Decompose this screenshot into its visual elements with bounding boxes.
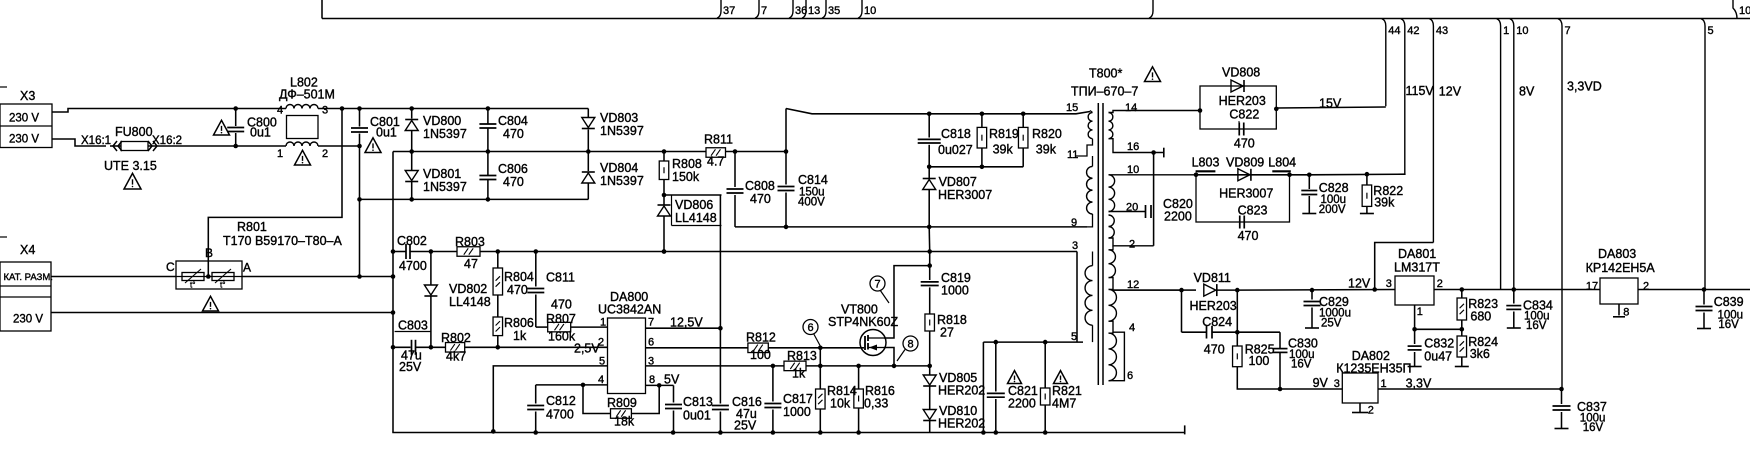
svg-text:7: 7 [874,279,880,291]
svg-text:6: 6 [1127,370,1133,382]
svg-text:ДФ–501М: ДФ–501М [279,88,335,102]
svg-text:HER203: HER203 [1219,94,1266,108]
svg-text:3,3V: 3,3V [1406,376,1432,390]
svg-text:4: 4 [277,105,283,117]
svg-text:4700: 4700 [546,408,574,422]
svg-text:T170 B59170–T80–A: T170 B59170–T80–A [223,234,343,248]
svg-text:HER3007: HER3007 [1219,187,1273,201]
svg-text:2: 2 [322,148,328,160]
svg-text:R811: R811 [704,133,733,147]
svg-text:ТПИ–670–7: ТПИ–670–7 [1071,85,1138,99]
svg-text:FU800: FU800 [115,125,153,139]
svg-text:UC3842AN: UC3842AN [598,303,661,317]
svg-text:44: 44 [1388,25,1400,37]
svg-text:C832: C832 [1424,337,1454,351]
svg-text:2: 2 [598,337,604,349]
svg-text:470: 470 [750,192,771,206]
svg-text:1N5397: 1N5397 [423,127,467,141]
svg-text:HER202: HER202 [938,417,985,431]
svg-text:8: 8 [907,339,913,351]
svg-text:3,3VD: 3,3VD [1567,79,1602,93]
svg-text:R809: R809 [607,396,637,410]
svg-text:11: 11 [1067,149,1078,161]
svg-text:1N5397: 1N5397 [600,124,644,138]
svg-text:HER3007: HER3007 [938,188,992,202]
svg-text:0u1: 0u1 [376,126,397,140]
svg-text:C806: C806 [498,162,528,176]
svg-text:L803: L803 [1192,156,1220,170]
svg-text:27: 27 [940,326,954,340]
svg-text:230 V: 230 V [13,314,43,326]
svg-text:7: 7 [761,5,767,17]
svg-text:STP4NK60Z: STP4NK60Z [828,315,899,329]
svg-text:t°: t° [220,281,225,290]
svg-text:R820: R820 [1032,127,1062,141]
svg-text:R813: R813 [787,349,817,363]
svg-text:8: 8 [1623,306,1629,318]
svg-text:C: C [166,260,175,274]
svg-text:5V: 5V [664,373,680,387]
svg-text:470: 470 [1204,342,1225,356]
svg-text:C802: C802 [397,234,427,248]
svg-text:16: 16 [1127,141,1139,153]
svg-text:C804: C804 [498,114,528,128]
svg-text:5: 5 [599,356,605,368]
svg-text:4: 4 [1129,322,1135,334]
svg-text:C808: C808 [745,179,775,193]
svg-text:6: 6 [648,337,654,349]
svg-text:8V: 8V [1519,85,1535,99]
svg-text:37: 37 [723,5,735,17]
svg-text:15V: 15V [1319,97,1342,111]
svg-text:10k: 10k [830,397,851,411]
svg-text:DA801: DA801 [1398,247,1436,261]
svg-text:2,5V: 2,5V [574,342,600,356]
svg-text:8: 8 [649,374,655,386]
svg-text:39k: 39k [1374,195,1395,209]
svg-text:C818: C818 [941,127,971,141]
svg-text:100: 100 [1249,354,1270,368]
svg-text:5: 5 [1071,331,1077,343]
svg-text:VD803: VD803 [600,111,638,125]
svg-text:25V: 25V [399,360,422,374]
svg-text:LL4148: LL4148 [449,295,491,309]
svg-text:7: 7 [1565,25,1571,37]
svg-text:16V: 16V [1718,319,1739,331]
svg-text:115V: 115V [1406,84,1435,98]
svg-text:R819: R819 [989,127,1019,141]
svg-text:VD801: VD801 [423,167,461,181]
svg-text:0,33: 0,33 [864,397,888,411]
svg-text:470: 470 [1234,136,1255,150]
svg-text:HER202: HER202 [938,384,985,398]
svg-text:4.7: 4.7 [707,155,724,169]
svg-text:13: 13 [808,5,820,17]
svg-text:3: 3 [1072,240,1078,252]
svg-text:16V: 16V [1583,422,1604,434]
svg-text:39k: 39k [1036,143,1057,157]
svg-text:10: 10 [864,5,876,17]
svg-text:B: B [205,246,213,260]
svg-text:1N5397: 1N5397 [600,174,644,188]
svg-text:680: 680 [1470,310,1491,324]
svg-text:150k: 150k [672,170,700,184]
svg-text:17: 17 [1586,281,1598,293]
svg-text:VD809: VD809 [1226,156,1264,170]
svg-text:1: 1 [277,148,283,160]
svg-text:25V: 25V [1321,318,1342,330]
svg-text:T800*: T800* [1089,67,1122,81]
svg-text:R806: R806 [504,316,534,330]
svg-text:VD802: VD802 [449,282,487,296]
svg-text:3: 3 [1386,278,1392,290]
svg-text:43: 43 [1436,25,1448,37]
svg-text:DA803: DA803 [1598,247,1636,261]
svg-text:1000: 1000 [941,284,969,298]
svg-text:400V: 400V [798,197,825,209]
svg-text:VD808: VD808 [1222,66,1260,80]
svg-text:2: 2 [1437,278,1443,290]
svg-text:3: 3 [1334,378,1340,390]
svg-text:7: 7 [648,317,654,329]
svg-text:C813: C813 [683,395,713,409]
svg-text:10: 10 [1516,25,1528,37]
svg-text:C824: C824 [1202,315,1232,329]
svg-text:LL4148: LL4148 [675,211,717,225]
svg-text:1000: 1000 [783,405,811,419]
svg-text:1: 1 [1417,306,1423,318]
svg-text:1N5397: 1N5397 [423,180,467,194]
svg-text:25V: 25V [734,419,757,433]
svg-text:6: 6 [807,322,813,334]
svg-text:VD800: VD800 [423,114,461,128]
svg-text:14: 14 [1125,102,1137,114]
svg-text:12: 12 [1127,279,1139,291]
svg-text:C839: C839 [1714,295,1744,309]
svg-text:КР142ЕН5А: КР142ЕН5А [1586,261,1656,275]
svg-text:t°: t° [190,281,195,290]
svg-text:47: 47 [464,257,478,271]
svg-text:C817: C817 [783,392,813,406]
svg-text:3: 3 [322,105,328,117]
svg-text:15: 15 [1066,102,1078,114]
svg-text:12,5V: 12,5V [670,316,703,330]
svg-text:R808: R808 [672,157,702,171]
svg-text:1k: 1k [792,367,806,381]
svg-text:R812: R812 [746,331,776,345]
svg-text:1: 1 [600,317,606,329]
svg-text:LM317T: LM317T [1394,261,1440,275]
svg-text:470: 470 [503,127,524,141]
svg-text:42: 42 [1407,25,1419,37]
svg-text:1: 1 [1503,25,1509,37]
svg-text:200V: 200V [1319,204,1346,216]
svg-text:R804: R804 [504,270,534,284]
svg-text:39k: 39k [993,143,1014,157]
svg-text:C812: C812 [546,394,576,408]
svg-text:230 V: 230 V [9,134,39,146]
svg-text:12V: 12V [1439,85,1462,99]
svg-text:A: A [243,261,251,275]
svg-text:КАТ. РАЗМ.: КАТ. РАЗМ. [4,272,53,283]
svg-text:2: 2 [1129,239,1135,251]
svg-text:9: 9 [1071,217,1077,229]
svg-text:VD806: VD806 [675,198,713,212]
svg-text:160k: 160k [548,330,576,344]
svg-text:2200: 2200 [1008,397,1036,411]
svg-text:0u1: 0u1 [250,126,271,140]
svg-text:12V: 12V [1348,276,1371,290]
svg-text:470: 470 [503,175,524,189]
svg-text:16V: 16V [1291,358,1312,370]
svg-text:35: 35 [828,5,840,17]
svg-text:2200: 2200 [1164,210,1192,224]
svg-text:C822: C822 [1229,108,1259,122]
svg-text:UTE 3.15: UTE 3.15 [104,159,157,173]
svg-text:C828: C828 [1319,181,1349,195]
svg-text:VD811: VD811 [1194,271,1231,285]
svg-text:VD804: VD804 [600,161,638,175]
svg-text:0u47: 0u47 [1424,349,1452,363]
svg-text:К1235ЕН35П: К1235ЕН35П [1336,362,1411,376]
svg-text:1: 1 [1381,378,1387,390]
svg-text:100: 100 [750,348,771,362]
svg-text:C823: C823 [1238,203,1268,217]
svg-text:470: 470 [551,298,572,312]
svg-text:4700: 4700 [399,259,427,273]
svg-text:470: 470 [1238,229,1259,243]
svg-text:9V: 9V [1313,376,1329,390]
svg-text:X16:1: X16:1 [81,135,111,147]
svg-text:X3: X3 [20,89,35,103]
svg-text:16V: 16V [1526,320,1547,332]
svg-text:3k6: 3k6 [1470,347,1490,361]
svg-text:X16:2: X16:2 [152,135,182,147]
svg-text:C811: C811 [546,271,575,285]
svg-text:0u01: 0u01 [683,409,711,423]
svg-text:18k: 18k [614,415,635,429]
svg-text:2: 2 [1368,404,1374,416]
svg-text:10: 10 [1739,5,1750,17]
svg-text:R807: R807 [546,312,576,326]
svg-text:R801: R801 [237,220,267,234]
svg-text:R802: R802 [441,331,471,345]
svg-text:C814: C814 [798,173,828,187]
svg-text:230 V: 230 V [9,113,39,125]
svg-text:C803: C803 [398,319,428,333]
svg-text:VD807: VD807 [939,175,977,189]
svg-text:R803: R803 [455,235,485,249]
svg-text:X4: X4 [20,243,35,257]
svg-text:2: 2 [1643,281,1649,293]
svg-text:0u027: 0u027 [938,143,973,157]
svg-text:470: 470 [507,283,528,297]
svg-text:4k7: 4k7 [446,350,466,364]
svg-text:1k: 1k [513,329,527,343]
svg-text:4M7: 4M7 [1052,397,1076,411]
svg-text:HER203: HER203 [1190,299,1237,313]
svg-text:L804: L804 [1268,156,1296,170]
svg-text:5: 5 [1708,25,1714,37]
